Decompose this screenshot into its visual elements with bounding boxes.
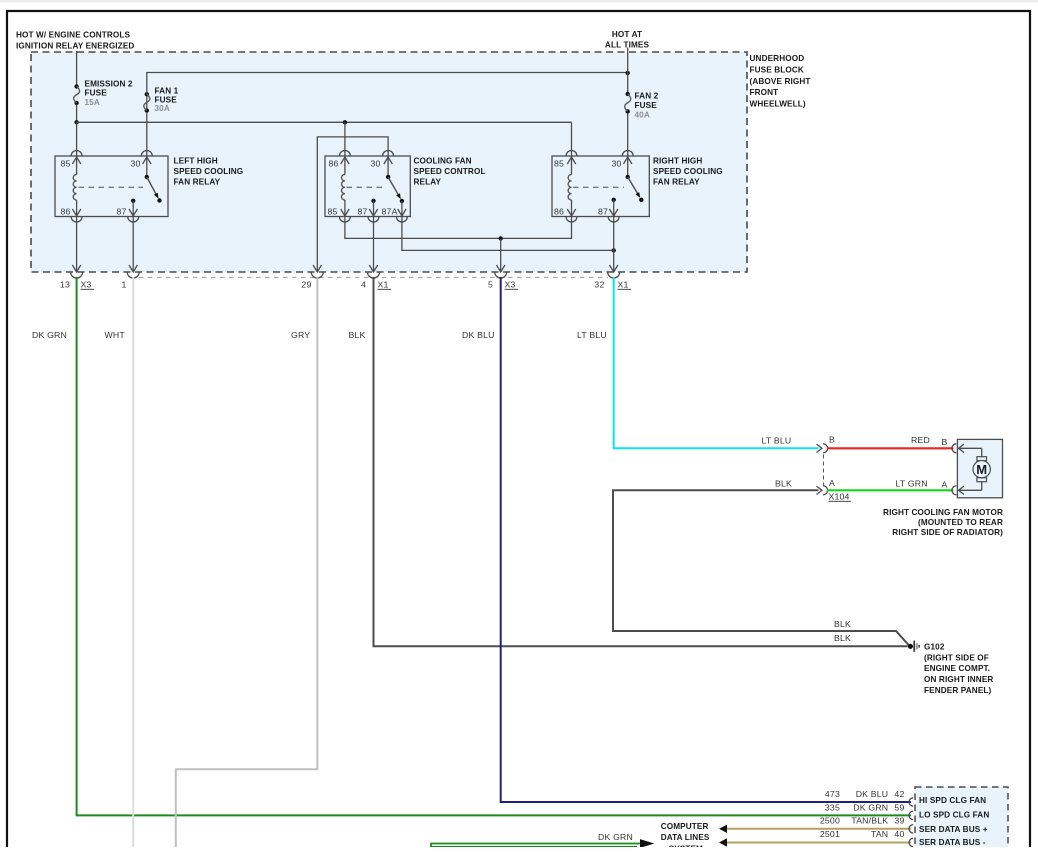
svg-text:RIGHT SIDE OF RADIATOR): RIGHT SIDE OF RADIATOR) xyxy=(892,528,1003,537)
connector socket pin 13 xyxy=(71,272,83,278)
svg-text:FUSE: FUSE xyxy=(635,101,658,110)
pin label 1 xyxy=(121,279,126,289)
relay K1 pin 87 terminal xyxy=(128,209,139,222)
wire fan1 branch xyxy=(146,95,148,111)
relay K3 pin 87 contact xyxy=(612,198,616,217)
svg-text:30: 30 xyxy=(612,159,622,169)
svg-text:DK GRN: DK GRN xyxy=(853,802,888,812)
svg-text:X104: X104 xyxy=(829,491,850,501)
label SER DATA BUS + xyxy=(919,825,988,834)
svg-text:30A: 30A xyxy=(155,104,170,113)
label G102 xyxy=(924,643,993,695)
relay K2 pin 86 terminal xyxy=(339,151,350,164)
label GRY xyxy=(291,330,310,340)
pin label 29 xyxy=(301,279,311,289)
svg-text:FAN 1: FAN 1 xyxy=(155,87,179,96)
svg-text:B: B xyxy=(942,437,948,447)
label DK BLU xyxy=(462,330,495,340)
svg-text:SPEED CONTROL: SPEED CONTROL xyxy=(414,167,486,176)
svg-text:86: 86 xyxy=(61,206,71,216)
pin label 32 X1 xyxy=(594,279,631,289)
svg-text:DK BLU: DK BLU xyxy=(462,330,495,340)
svg-text:SER DATA BUS +: SER DATA BUS + xyxy=(919,825,988,834)
svg-text:FRONT: FRONT xyxy=(750,88,779,97)
svg-text:HOT AT: HOT AT xyxy=(612,30,642,39)
wire K3 87 to pin 32 xyxy=(610,217,618,273)
label LT BLU at X104 xyxy=(762,436,792,446)
svg-text:2500: 2500 xyxy=(820,815,840,825)
label LEFT HIGH SPEED COOLING FAN RELAY xyxy=(174,157,244,187)
svg-text:4: 4 xyxy=(361,279,366,289)
motor M1 pin A entry xyxy=(959,482,982,495)
svg-text:DATA LINES: DATA LINES xyxy=(661,833,710,842)
svg-text:87: 87 xyxy=(598,206,608,216)
svg-text:HOT W/ ENGINE CONTROLS: HOT W/ ENGINE CONTROLS xyxy=(16,31,130,40)
svg-text:85: 85 xyxy=(61,159,71,169)
svg-text:COOLING FAN: COOLING FAN xyxy=(414,157,472,166)
relay K3 pin labels xyxy=(554,159,622,217)
label DK GRN bottom xyxy=(598,832,633,842)
computer data lines box xyxy=(915,787,1008,849)
svg-text:13: 13 xyxy=(60,279,70,289)
svg-text:TAN: TAN xyxy=(871,829,888,839)
svg-text:GRY: GRY xyxy=(291,330,310,340)
svg-text:LT BLU: LT BLU xyxy=(762,436,792,446)
relay K1 pin 87 contact xyxy=(131,199,135,217)
connector X104 cavity B xyxy=(817,435,836,453)
svg-text:30: 30 xyxy=(131,159,141,169)
relay K3 dashed link xyxy=(573,186,624,188)
svg-text:X1: X1 xyxy=(378,279,389,289)
svg-text:32: 32 xyxy=(594,279,604,289)
label RIGHT COOLING FAN MOTOR xyxy=(883,508,1003,537)
svg-text:BLK: BLK xyxy=(834,633,851,643)
relay K1 pin 86 terminal xyxy=(71,209,82,222)
label BLK at X104 xyxy=(775,478,792,488)
svg-text:FAN 2: FAN 2 xyxy=(635,91,659,100)
svg-text:SPEED COOLING: SPEED COOLING xyxy=(653,167,723,176)
motor M1 box xyxy=(957,439,1002,497)
svg-text:(MOUNTED TO REAR: (MOUNTED TO REAR xyxy=(918,518,1003,527)
svg-text:30: 30 xyxy=(371,159,381,169)
relay K2 coil xyxy=(342,156,345,217)
relay K3 pin 86 terminal xyxy=(566,209,577,222)
svg-text:BLK: BLK xyxy=(349,330,366,340)
wire gate pin29 to middle relay 30 xyxy=(317,137,388,272)
label LT GRN xyxy=(896,478,928,488)
relay K2 pin 30 terminal xyxy=(383,151,394,164)
svg-text:59: 59 xyxy=(894,802,904,812)
svg-text:FUSE BLOCK: FUSE BLOCK xyxy=(750,65,804,74)
svg-text:ON RIGHT INNER: ON RIGHT INNER xyxy=(924,675,993,684)
svg-text:TAN/BLK: TAN/BLK xyxy=(851,815,888,825)
svg-text:X3: X3 xyxy=(505,279,516,289)
label SER DATA BUS - xyxy=(919,838,986,847)
label RIGHT HIGH SPEED COOLING FAN RELAY xyxy=(653,157,723,187)
wire BLK motor return xyxy=(613,490,909,645)
motor M1 body xyxy=(973,461,990,478)
pin label 13 X3 xyxy=(60,279,94,289)
wire K2 87 to pin 4 xyxy=(369,217,377,273)
svg-text:85: 85 xyxy=(328,206,338,216)
svg-text:86: 86 xyxy=(329,159,339,169)
svg-text:LT BLU: LT BLU xyxy=(577,330,607,340)
svg-text:LEFT HIGH: LEFT HIGH xyxy=(174,157,218,166)
svg-text:40: 40 xyxy=(894,829,904,839)
label WHT xyxy=(105,330,126,340)
svg-text:1: 1 xyxy=(121,279,126,289)
relay K2 switch blade xyxy=(386,156,404,203)
relay K2 pin 87 contact xyxy=(371,199,375,217)
motor M1 pin B entry xyxy=(959,444,982,457)
fuse FAN 2 40A xyxy=(625,92,631,114)
relay K2 dashed link xyxy=(347,186,385,188)
wire fan2 fuse to relay 30 xyxy=(627,113,629,156)
svg-text:29: 29 xyxy=(301,279,311,289)
label HOT W/ ENGINE CONTROLS xyxy=(16,31,134,51)
connector SER- pin xyxy=(909,838,913,846)
svg-text:FAN RELAY: FAN RELAY xyxy=(653,177,700,186)
relay K1 switch blade xyxy=(145,156,162,203)
svg-text:473: 473 xyxy=(825,789,840,799)
wire K1 86 to pin 13 xyxy=(72,217,80,273)
wire fan1 top to hot-at-all-times xyxy=(147,73,628,95)
wire bus horizontal xyxy=(77,121,572,123)
relay K2 pin 87 terminal xyxy=(368,209,379,222)
svg-text:87: 87 xyxy=(117,206,127,216)
label row 2500 TAN/BLK 39 xyxy=(820,815,905,825)
svg-text:RIGHT COOLING FAN MOTOR: RIGHT COOLING FAN MOTOR xyxy=(883,508,1003,517)
wire TAN/BLK ser data + xyxy=(719,825,911,833)
relay K1 LEFT HIGH SPEED COOLING FAN RELAY box xyxy=(55,156,168,217)
wire LT GRN motor A xyxy=(827,489,954,491)
svg-text:15A: 15A xyxy=(85,98,100,107)
label FAN 1 FUSE 30A xyxy=(155,87,179,114)
wire RED motor B xyxy=(827,447,954,449)
svg-text:X3: X3 xyxy=(81,279,92,289)
wire BLK pin4 to G102 xyxy=(374,277,908,646)
svg-text:40A: 40A xyxy=(635,110,650,119)
relay K3 pin 85 terminal xyxy=(566,151,577,164)
node junction lt blu xyxy=(612,248,616,252)
svg-text:SPEED COOLING: SPEED COOLING xyxy=(174,167,244,176)
wire DK GRN to computer system xyxy=(431,839,654,848)
label DK GRN xyxy=(32,330,67,340)
label COMPUTER DATA LINES SYSTEM xyxy=(661,822,710,852)
label row 335 DK GRN 59 xyxy=(825,802,905,812)
svg-text:ENGINE COMPT.: ENGINE COMPT. xyxy=(924,664,990,673)
wire K1 87 to pin 1 xyxy=(129,217,137,273)
label COOLING FAN SPEED CONTROL RELAY xyxy=(414,157,486,187)
svg-text:RIGHT HIGH: RIGHT HIGH xyxy=(653,157,702,166)
ground G102 symbol xyxy=(908,641,920,652)
connector LO SPD pin xyxy=(909,811,913,819)
pin label 5 X3 xyxy=(488,279,518,289)
label FAN 2 FUSE 40A xyxy=(635,91,659,119)
connector X104 dashed link xyxy=(823,455,825,486)
wire LT BLU pin32 xyxy=(614,277,819,448)
svg-text:BLK: BLK xyxy=(834,619,851,629)
wire bus to right relay 85 xyxy=(571,122,573,156)
svg-text:FENDER PANEL): FENDER PANEL) xyxy=(924,686,992,695)
svg-text:SER DATA BUS -: SER DATA BUS - xyxy=(919,838,986,847)
svg-text:42: 42 xyxy=(894,789,904,799)
connector motor pin A xyxy=(952,486,957,495)
wire DK GRN pin13 xyxy=(77,277,911,815)
relay K1 coil xyxy=(73,156,76,217)
relay K1 dashed link xyxy=(79,186,144,188)
wire WHT pin1 xyxy=(132,277,134,847)
svg-text:UNDERHOOD: UNDERHOOD xyxy=(750,54,805,63)
label B at motor xyxy=(942,437,948,447)
relay K3 switch blade xyxy=(626,156,644,202)
relay K3 coil xyxy=(568,156,571,217)
svg-text:LT GRN: LT GRN xyxy=(896,478,928,488)
motor M1 top brush xyxy=(977,457,987,461)
relay K1 pin 85 terminal xyxy=(71,151,82,164)
wire emission fuse to relay 85 xyxy=(76,122,78,156)
label A at motor xyxy=(942,480,948,490)
wire K2 85 to K3 86 xyxy=(345,217,572,239)
label LO SPD CLG FAN xyxy=(919,810,989,819)
label HOT AT ALL TIMES xyxy=(605,30,650,50)
relay K3 pin 30 terminal xyxy=(622,151,633,164)
wire ignition feed xyxy=(76,51,78,85)
label row 2501 TAN 40 xyxy=(820,829,905,839)
pin label 4 X1 xyxy=(361,279,391,289)
relay K2 pin labels xyxy=(328,159,398,217)
wire hot at all times feed xyxy=(627,48,629,93)
node junction dk blu drop xyxy=(499,236,503,240)
svg-text:WHT: WHT xyxy=(105,330,126,340)
svg-text:M: M xyxy=(976,462,987,477)
connector socket pin 5 xyxy=(495,272,507,278)
label BLK upper xyxy=(834,619,851,629)
svg-text:BLK: BLK xyxy=(775,478,792,488)
underhood fuse block box xyxy=(31,52,747,272)
connector dashed row xyxy=(139,276,608,278)
connector socket pin 1 xyxy=(127,272,139,278)
svg-text:(ABOVE RIGHT: (ABOVE RIGHT xyxy=(750,77,811,86)
svg-text:A: A xyxy=(829,478,835,488)
svg-text:X1: X1 xyxy=(618,279,629,289)
connector socket pin 32 xyxy=(608,272,620,278)
svg-text:86: 86 xyxy=(554,206,564,216)
svg-text:WHEELWELL): WHEELWELL) xyxy=(750,99,806,108)
fuse FAN 1 30A xyxy=(144,92,150,113)
svg-text:87: 87 xyxy=(358,206,368,216)
relay K3 pin 87 terminal xyxy=(608,209,619,222)
label HI SPD CLG FAN xyxy=(919,796,986,805)
svg-text:2501: 2501 xyxy=(820,829,840,839)
svg-text:RED: RED xyxy=(911,435,930,445)
svg-text:A: A xyxy=(942,480,948,490)
wire DK BLU pin5 xyxy=(501,277,911,802)
svg-text:FUSE: FUSE xyxy=(85,89,108,98)
fuse EMISSION 2 15A xyxy=(74,84,80,105)
svg-text:39: 39 xyxy=(894,815,904,825)
wire bus to middle relay 86 xyxy=(344,122,346,156)
connector HI SPD pin xyxy=(909,798,913,806)
relay K2 COOLING FAN SPEED CONTROL RELAY box xyxy=(325,156,410,217)
svg-text:COMPUTER: COMPUTER xyxy=(661,822,709,831)
node bus junction B xyxy=(343,120,347,124)
svg-text:HI SPD CLG FAN: HI SPD CLG FAN xyxy=(919,796,986,805)
svg-text:IGNITION RELAY ENERGIZED: IGNITION RELAY ENERGIZED xyxy=(16,42,134,51)
wire GRY pin29 xyxy=(176,277,317,847)
wire gate arrow pin 29 xyxy=(313,265,321,272)
relay K3 RIGHT HIGH SPEED COOLING FAN RELAY box xyxy=(552,156,649,217)
wire emission fuse to bus xyxy=(76,105,78,123)
label BLK xyxy=(349,330,366,340)
svg-text:EMISSION 2: EMISSION 2 xyxy=(85,80,133,89)
connector socket pin 29 xyxy=(311,272,323,278)
relay K2 pin 87A terminal xyxy=(396,201,407,222)
svg-text:B: B xyxy=(829,435,835,445)
svg-text:DK BLU: DK BLU xyxy=(856,789,889,799)
svg-text:DK GRN: DK GRN xyxy=(32,330,67,340)
wire K2 87A to K3 87 xyxy=(402,217,614,251)
label row 473 DK BLU 42 xyxy=(825,789,905,799)
wire drop to pin 5 xyxy=(497,238,505,272)
connector X104 cavity A xyxy=(817,478,836,495)
connector motor pin B xyxy=(952,444,957,453)
svg-text:G102: G102 xyxy=(924,643,945,652)
node bus junction A xyxy=(74,120,78,124)
label EMISSION 2 FUSE 15A xyxy=(85,80,133,108)
connector socket pin 4 xyxy=(368,272,380,278)
label UNDERHOOD FUSE BLOCK xyxy=(750,54,811,108)
relay K2 pin 85 terminal xyxy=(339,209,350,222)
wire TAN ser data - xyxy=(719,838,911,846)
svg-text:87A: 87A xyxy=(382,206,398,216)
wire fan1 fuse to relay 30 xyxy=(146,112,148,156)
relay K1 pin 30 terminal xyxy=(141,151,152,164)
svg-text:FAN RELAY: FAN RELAY xyxy=(174,177,221,186)
svg-text:(RIGHT SIDE OF: (RIGHT SIDE OF xyxy=(924,653,989,662)
svg-text:DK GRN: DK GRN xyxy=(598,832,633,842)
relay K1 pin labels xyxy=(61,159,141,217)
label BLK lower xyxy=(834,633,851,643)
node junction fan2 feed xyxy=(626,71,630,75)
label LT BLU xyxy=(577,330,607,340)
svg-text:335: 335 xyxy=(825,802,840,812)
motor M1 bottom brush xyxy=(977,478,987,482)
svg-text:RELAY: RELAY xyxy=(414,177,442,186)
svg-text:LO SPD CLG FAN: LO SPD CLG FAN xyxy=(919,810,989,819)
label X104 xyxy=(829,491,852,501)
svg-text:5: 5 xyxy=(488,279,493,289)
connector SER+ pin xyxy=(909,825,913,833)
svg-text:85: 85 xyxy=(554,159,564,169)
label RED xyxy=(911,435,930,445)
